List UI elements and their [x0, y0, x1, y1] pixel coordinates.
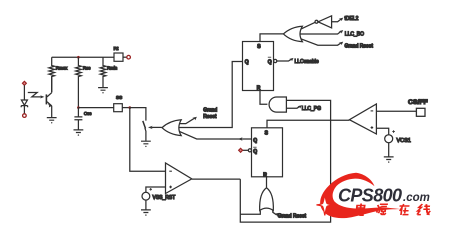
svg-text:SS: SS	[116, 95, 122, 100]
terminal CS/FF	[416, 108, 425, 116]
wire VSS_RST to ground	[145, 200, 147, 210]
logo star	[317, 194, 334, 215]
wire OR3 left input	[240, 211, 260, 215]
node top rail junction	[77, 56, 80, 59]
resistor Rss	[76, 57, 82, 107]
svg-text:LLCenable: LLCenable	[295, 59, 319, 65]
pin CS comparator plus mark	[371, 126, 374, 129]
wire VCS1 to ground	[388, 143, 390, 157]
wire node SS to switch collector	[130, 108, 146, 121]
logo CPS800 watermark	[317, 173, 432, 218]
flip-flop FF2	[252, 128, 283, 177]
pin SS comparator minus mark	[169, 170, 172, 172]
svg-text:S: S	[257, 44, 261, 50]
svg-text:Q: Q	[245, 59, 249, 65]
wire SS box to node	[122, 107, 130, 109]
node SS	[129, 106, 132, 109]
wire FF1 Qbar to label	[277, 59, 292, 61]
wire FF1 R	[260, 91, 267, 105]
terminal LED anode	[22, 81, 26, 85]
comparator CS (points left)	[349, 104, 376, 134]
svg-text:Rss: Rss	[83, 66, 91, 71]
svg-text:Reset: Reset	[203, 114, 217, 120]
svg-text:Grand: Grand	[203, 108, 217, 114]
svg-text:Css: Css	[84, 111, 92, 116]
node Css junction	[77, 106, 80, 109]
svg-text:CPS800: CPS800	[338, 186, 402, 206]
terminal FF2 Qbar	[239, 148, 243, 152]
ground under VSS_RST	[141, 210, 151, 216]
wire top rail	[52, 56, 114, 58]
terminal Rt pin	[127, 55, 131, 59]
svg-text:VSS_RST: VSS_RST	[153, 195, 176, 201]
flip-flop FF1	[243, 42, 274, 91]
transistor SS discharge switch	[143, 121, 146, 129]
wire Rt to terminal	[123, 56, 127, 58]
wire OR output arrow to switch base	[152, 126, 162, 128]
wire comparator output	[192, 178, 241, 180]
svg-text:tDEL2: tDEL2	[345, 16, 359, 22]
wire comparator plus input	[146, 187, 166, 192]
wire OR2 mid input LLC_BO	[300, 31, 342, 34]
or-gate U_r2 (output up, drives FF2 R)	[260, 188, 274, 211]
transistor opto NPN	[45, 94, 47, 104]
wire OR input from FF1 Q	[179, 62, 243, 128]
wire node SS down to comparator	[130, 108, 166, 172]
and-gate U_pg (output left)	[269, 97, 286, 112]
wire CS plus input to CS/FF	[376, 110, 416, 112]
wire OR input from FF2 Q	[179, 131, 251, 139]
wire AND bottom input LLC_PG	[286, 106, 300, 108]
diode LED opto	[23, 85, 25, 100]
opto light arrow	[28, 93, 42, 97]
glyph yuan	[375, 204, 388, 215]
svg-text:LLC_PG: LLC_PG	[302, 106, 321, 112]
inverter IDEL2	[315, 20, 318, 23]
or-gate U_rst (output left, drives switch base)	[162, 120, 181, 136]
bubble FF2 Qbar	[248, 149, 251, 152]
ground under VCS1	[384, 157, 394, 163]
wire OR input Grand Reset	[179, 118, 195, 124]
resistor Rt	[114, 53, 123, 61]
source VCS1	[385, 135, 393, 143]
logo text chinese 电源在线	[356, 204, 431, 216]
wire FF2 Qbar to terminal	[243, 149, 249, 151]
ground switch emitter	[141, 141, 151, 147]
pin SS comparator plus mark	[169, 186, 172, 189]
logo red swoosh C	[320, 173, 401, 218]
svg-text:Q: Q	[253, 149, 257, 155]
comparator SS ready (points right)	[166, 163, 192, 194]
svg-text:.com: .com	[403, 192, 430, 204]
pin CS comparator minus mark	[371, 110, 374, 112]
ground under Rmin	[98, 88, 108, 94]
glyph dian	[356, 204, 366, 216]
wire OR2 bottom input Grand Reset	[301, 39, 342, 45]
svg-text:Grand Reset: Grand Reset	[278, 213, 307, 219]
glyph xian	[417, 204, 431, 215]
svg-text:S: S	[265, 130, 269, 136]
resistor Rmin	[100, 57, 106, 87]
source VSS_RST	[142, 192, 150, 200]
wire FF1 S	[260, 34, 283, 42]
glyph zai	[398, 204, 410, 215]
svg-text:Rmin: Rmin	[107, 66, 118, 71]
wire CS comparator output to FF2 S	[267, 120, 349, 128]
wire OR3 right input Grand Reset arrow	[273, 210, 277, 214]
wire CS minus input to VCS1	[376, 128, 388, 134]
svg-text:Q: Q	[268, 59, 272, 65]
svg-text:Rt: Rt	[114, 46, 119, 52]
wire inverter input	[332, 19, 342, 22]
svg-text:LLC_BO: LLC_BO	[345, 32, 364, 38]
terminal LED cathode	[23, 114, 27, 118]
or-gate U_set (top, output left)	[283, 26, 302, 42]
resistor Rmax	[49, 57, 55, 92]
bubble FF1 Qbar	[274, 59, 277, 62]
wire FF2 R	[266, 177, 268, 188]
wire OR2 top input to inverter	[301, 22, 315, 29]
svg-text:CS/FF: CS/FF	[408, 99, 428, 106]
svg-text:Grand Reset: Grand Reset	[345, 44, 374, 50]
svg-text:Q: Q	[253, 138, 257, 144]
capacitor Css	[74, 108, 82, 130]
svg-text:R: R	[257, 85, 261, 91]
wire AND top input long loop	[240, 100, 330, 222]
wire node to SS box	[78, 107, 113, 109]
ground under Css	[74, 130, 84, 136]
resistor SS box	[114, 104, 123, 112]
svg-text:Rmax: Rmax	[56, 66, 68, 71]
svg-text:VCS1: VCS1	[397, 138, 411, 144]
ground opto emitter	[47, 118, 57, 124]
